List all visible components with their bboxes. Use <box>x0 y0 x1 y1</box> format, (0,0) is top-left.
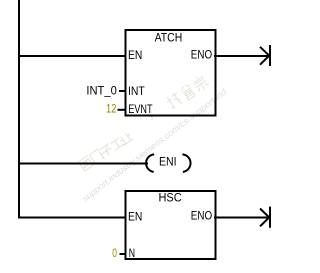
box HSC (high speed counter instruction) <box>126 191 216 259</box>
svg-text:HSC: HSC <box>159 193 182 205</box>
svg-text:12: 12 <box>106 104 116 116</box>
svg-text:support.industry.siemens.com/c: support.industry.siemens.com/cs.support.… <box>80 87 228 204</box>
svg-text:ENO: ENO <box>191 211 212 223</box>
wire: rail corner to HSC EN <box>18 217 126 219</box>
wire: rail to ATCH EN <box>18 55 126 57</box>
svg-text:INT_0: INT_0 <box>86 86 116 98</box>
svg-text:EN: EN <box>128 212 142 224</box>
wire: HSC ENO out <box>214 217 269 219</box>
watermark: comma mark <box>149 115 153 119</box>
box ATCH (interrupt attach instruction) <box>126 30 216 116</box>
arrow out (network 1 continuation) <box>260 47 269 65</box>
svg-text:INT: INT <box>128 86 145 98</box>
stub: INT_0 to INT pin <box>119 90 126 92</box>
svg-text:0: 0 <box>112 248 117 260</box>
watermark: chinese characters (approximated glyph outlines) <box>78 74 210 172</box>
stub: 12 to EVNT pin <box>118 109 126 111</box>
svg-text:EVNT: EVNT <box>128 104 152 116</box>
left power rail <box>18 0 20 219</box>
svg-text:EN: EN <box>128 50 142 62</box>
svg-text:ENO: ENO <box>191 50 212 62</box>
svg-text:ENI: ENI <box>159 157 177 169</box>
wire: rail to ENI coil <box>18 163 148 165</box>
coil ENI (enable interrupts) left paren <box>146 154 154 172</box>
svg-text:N: N <box>129 248 135 260</box>
arrow out (network 3 continuation) <box>260 209 269 227</box>
stub: 0 to N pin <box>120 253 126 255</box>
svg-text:ATCH: ATCH <box>155 33 183 45</box>
coil ENI right paren <box>182 154 190 172</box>
wire: ATCH ENO out <box>214 55 269 57</box>
